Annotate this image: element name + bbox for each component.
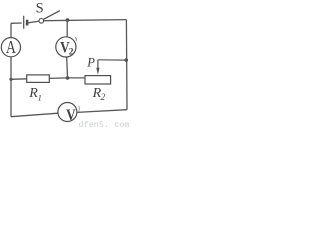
wire slider horizontal: [98, 59, 126, 61]
wire top-left horizontal: [11, 22, 22, 24]
switch S pivot circle: [39, 19, 44, 24]
rheostat R2 slider arrow stem: [97, 60, 99, 69]
wire center dot to R2: [68, 77, 86, 79]
terminal tick near V2: [75, 37, 76, 41]
svg-text:dfen5. com: dfen5. com: [79, 120, 130, 128]
resistor R1 body box: [27, 75, 50, 83]
wire left vertical upper: [10, 23, 12, 38]
battery B long plate: [23, 16, 25, 29]
svg-text:1: 1: [38, 92, 42, 102]
wire battery to switch: [28, 21, 39, 23]
wire switch to top-right corner: [44, 20, 127, 21]
wire V2 branch lower: [66, 57, 69, 78]
svg-text:V: V: [66, 107, 76, 124]
wire V2 branch upper: [66, 20, 68, 37]
node top junction dot: [66, 18, 70, 22]
svg-text:P: P: [86, 55, 95, 69]
wire bottom left to voltmeter V: [11, 113, 58, 117]
node left junction dot: [9, 78, 12, 81]
svg-text:S: S: [36, 1, 44, 17]
wire R1 to center dot: [49, 77, 67, 80]
svg-text:2: 2: [101, 92, 106, 102]
terminal tick near V: [78, 106, 81, 112]
node center junction dot: [66, 76, 70, 80]
switch S blade: [44, 11, 60, 20]
node slider junction dot: [124, 58, 128, 62]
wire voltmeter V to bottom right corner: [77, 110, 127, 113]
ammeter A circle: [1, 38, 20, 57]
rheostat R2 body box: [85, 76, 111, 84]
voltmeter V2 circle: [56, 37, 76, 57]
svg-text:2: 2: [69, 48, 74, 58]
svg-text:A: A: [6, 39, 17, 58]
wire left dot to R1: [11, 78, 27, 81]
rheostat R2 slider arrowhead: [96, 68, 99, 75]
voltmeter V circle: [58, 103, 77, 122]
wire left vertical lower: [10, 57, 12, 117]
battery B short plate: [26, 20, 29, 26]
wire right vertical: [125, 20, 128, 110]
